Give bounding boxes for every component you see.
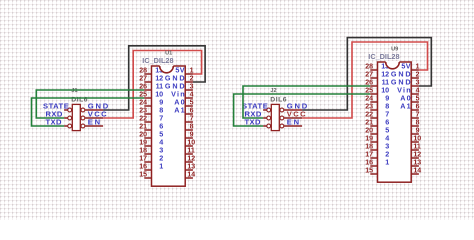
- J2 pin RXD (left): [245, 110, 271, 120]
- U9 pin 4 (right, row 4) internal label Vin: [397, 85, 419, 94]
- svg-text:13: 13: [187, 163, 195, 170]
- svg-text:28: 28: [139, 67, 147, 74]
- svg-text:10: 10: [187, 139, 195, 146]
- svg-text:21: 21: [365, 119, 373, 126]
- svg-text:IC_DIL28: IC_DIL28: [368, 52, 399, 61]
- connector J1 body: [72, 104, 80, 130]
- U9 pin 13 (right, row 13): [411, 159, 421, 166]
- U9 pin 12 (right, row 12): [411, 151, 421, 158]
- wire RXD net (green): J1.RXD to U1 pin 26: [36, 90, 144, 118]
- wire VCC net (red): J1.VCC to U1 pin 1 (5V): [103, 51, 202, 119]
- svg-text:IC_DIL28: IC_DIL28: [142, 56, 173, 65]
- wire GND net (black): J1.GND to U1 pin 2: [103, 46, 205, 110]
- U1 pin 26 (left, row 3) internal label 11: [139, 81, 163, 90]
- J1 pin EN (right): [81, 118, 103, 128]
- J2 pin GND (right): [280, 102, 309, 112]
- U1 pin 20 (left, row 9) internal label 5: [139, 129, 163, 138]
- svg-text:16: 16: [365, 159, 373, 166]
- svg-text:19: 19: [365, 135, 373, 142]
- svg-text:17: 17: [365, 151, 373, 158]
- svg-text:6: 6: [190, 107, 194, 114]
- wire GND net (black): J2.GND to U9 pin 3: [302, 38, 431, 110]
- svg-text:1: 1: [190, 67, 194, 74]
- U1 pin 21 (left, row 8) internal label 6: [139, 121, 163, 130]
- svg-text:5: 5: [416, 95, 420, 102]
- svg-text:11: 11: [187, 147, 195, 154]
- J1 pin GND (right): [81, 102, 110, 112]
- svg-text:22: 22: [139, 115, 147, 122]
- svg-text:23: 23: [365, 103, 373, 110]
- svg-text:1: 1: [159, 161, 163, 170]
- U1 pin 4 (right, row 4) internal label Vin: [171, 89, 193, 98]
- U9 pin 27 (left, row 2) internal label 12: [365, 69, 389, 78]
- U1 pin 18 (left, row 11) internal label 3: [139, 145, 163, 154]
- U1 pin 23 (left, row 6) internal label 8: [139, 105, 163, 114]
- svg-text:22: 22: [365, 111, 373, 118]
- U9 pin 23 (left, row 6) internal label 8: [365, 101, 389, 110]
- svg-text:27: 27: [365, 71, 373, 78]
- U9 pin 6 (right, row 6) internal label A1: [400, 101, 419, 110]
- U9 pin 19 (left, row 10) internal label 4: [365, 133, 389, 142]
- U1 pin 7 (right, row 7): [185, 115, 193, 122]
- svg-text:25: 25: [365, 87, 373, 94]
- J1 pin TXD (left): [46, 118, 72, 128]
- svg-text:9: 9: [190, 131, 194, 138]
- U1 pin 14 (right, row 14): [185, 171, 195, 178]
- svg-text:8: 8: [190, 123, 194, 130]
- svg-text:2: 2: [416, 71, 420, 78]
- svg-text:15: 15: [139, 171, 147, 178]
- U9 pin 1 (right, row 1) internal label 5V: [401, 61, 419, 70]
- U9 pin 15 (left, row 14): [365, 167, 377, 174]
- U9 pin 3 (right, row 3) internal label GND: [391, 77, 420, 86]
- U9 pin 21 (left, row 8) internal label 6: [365, 117, 389, 126]
- svg-text:21: 21: [139, 123, 147, 130]
- U1 pin 10 (right, row 10): [185, 139, 195, 146]
- svg-text:8: 8: [416, 119, 420, 126]
- U1 pin 12 (right, row 12): [185, 155, 195, 162]
- U1 pin 6 (right, row 6) internal label A1: [174, 105, 193, 114]
- IC U9 body: [378, 62, 412, 182]
- svg-text:DIL6: DIL6: [270, 96, 287, 103]
- svg-text:25: 25: [139, 91, 147, 98]
- J2 pin TXD (left): [245, 118, 271, 128]
- svg-text:7: 7: [190, 115, 194, 122]
- svg-text:14: 14: [413, 167, 421, 174]
- svg-text:14: 14: [187, 171, 195, 178]
- U9 pin 8 (right, row 8): [411, 119, 419, 126]
- svg-text:A1: A1: [400, 101, 412, 110]
- svg-text:J1: J1: [71, 88, 77, 94]
- U9 pin 5 (right, row 5) internal label A0: [400, 93, 419, 102]
- U1 pin 13 (right, row 13): [185, 163, 195, 170]
- svg-text:1: 1: [416, 63, 420, 70]
- svg-text:1: 1: [385, 157, 389, 166]
- svg-text:27: 27: [139, 75, 147, 82]
- svg-text:7: 7: [416, 111, 420, 118]
- connector J2 body: [271, 104, 279, 130]
- U1 pin 25 (left, row 4) internal label 10: [139, 89, 163, 98]
- svg-text:6: 6: [416, 103, 420, 110]
- svg-text:4: 4: [416, 87, 420, 94]
- U1 pin 9 (right, row 9): [185, 131, 193, 138]
- svg-text:24: 24: [139, 99, 147, 106]
- J1 pin VCC (right): [81, 110, 108, 120]
- svg-text:3: 3: [190, 83, 194, 90]
- wire TXD net (green): J2.TXD to U9 pin 25: [234, 94, 371, 126]
- svg-text:11: 11: [413, 143, 421, 150]
- U1 pin 1 (right, row 1) internal label 5V: [175, 65, 193, 74]
- U1 pin 3 (right, row 3) internal label GND: [165, 81, 194, 90]
- wire TXD net (green): J1.TXD to U1 pin 25: [32, 98, 145, 126]
- U1 pin 27 (left, row 2) internal label 12: [139, 73, 163, 82]
- svg-text:12: 12: [413, 151, 421, 158]
- svg-text:3: 3: [416, 79, 420, 86]
- U1 pin 28 (left, row 1) internal label 13: [139, 65, 163, 74]
- U9 pin 9 (right, row 9): [411, 127, 419, 134]
- svg-text:10: 10: [413, 135, 421, 142]
- U1 pin 16 (left, row 13) internal label 1: [139, 161, 163, 170]
- wire VCC net (red): J2.VCC to U9 pin 1 (5V): [302, 42, 427, 118]
- U1 pin 8 (right, row 8): [185, 123, 193, 130]
- svg-text:16: 16: [139, 163, 147, 170]
- svg-text:15: 15: [365, 167, 373, 174]
- IC U9 notch (DIL orientation mark): [386, 61, 400, 69]
- svg-text:24: 24: [365, 95, 373, 102]
- wire RXD net (green): J2.RXD to U9 pin 26: [243, 86, 370, 118]
- U1 pin 17 (left, row 12) internal label 2: [139, 153, 163, 162]
- svg-text:EN: EN: [287, 118, 301, 127]
- svg-text:19: 19: [139, 139, 147, 146]
- U9 pin 7 (right, row 7): [411, 111, 419, 118]
- U9 pin 25 (left, row 4) internal label 10: [365, 85, 389, 94]
- svg-text:EN: EN: [88, 118, 102, 127]
- IC U1 body: [152, 66, 186, 186]
- U1 pin 5 (right, row 5) internal label A0: [174, 97, 193, 106]
- svg-text:23: 23: [139, 107, 147, 114]
- IC U1 notch (DIL orientation mark): [160, 65, 174, 73]
- svg-text:28: 28: [365, 63, 373, 70]
- svg-text:9: 9: [416, 127, 420, 134]
- U1 pin 2 (right, row 2) internal label GND: [165, 73, 194, 82]
- U1 pin 11 (right, row 11): [185, 147, 195, 154]
- svg-text:5: 5: [190, 99, 194, 106]
- J2 pin VCC (right): [280, 110, 307, 120]
- svg-text:13: 13: [413, 159, 421, 166]
- J1 pin RXD (left): [46, 110, 72, 120]
- U9 pin 11 (right, row 11): [411, 143, 421, 150]
- svg-text:18: 18: [139, 147, 147, 154]
- U9 pin 26 (left, row 3) internal label 11: [365, 77, 389, 86]
- U9 pin 14 (right, row 14): [411, 167, 421, 174]
- U9 pin 10 (right, row 10): [411, 135, 421, 142]
- J2 pin STATE (left): [242, 102, 271, 112]
- U9 pin 17 (left, row 12) internal label 2: [365, 149, 389, 158]
- svg-text:26: 26: [365, 79, 373, 86]
- U9 pin 16 (left, row 13) internal label 1: [365, 157, 389, 166]
- U1 pin 22 (left, row 7) internal label 7: [139, 113, 163, 122]
- U1 pin 15 (left, row 14): [139, 171, 151, 178]
- U9 pin 28 (left, row 1) internal label 13: [365, 61, 389, 70]
- svg-text:A1: A1: [174, 105, 186, 114]
- U9 pin 20 (left, row 9) internal label 5: [365, 125, 389, 134]
- svg-text:12: 12: [187, 155, 195, 162]
- J2 pin EN (right): [280, 118, 302, 128]
- U1 pin 19 (left, row 10) internal label 4: [139, 137, 163, 146]
- svg-text:20: 20: [139, 131, 147, 138]
- svg-text:18: 18: [365, 143, 373, 150]
- svg-text:20: 20: [365, 127, 373, 134]
- U9 pin 24 (left, row 5) internal label 9: [365, 93, 389, 102]
- svg-text:4: 4: [190, 91, 194, 98]
- U9 pin 22 (left, row 7) internal label 7: [365, 109, 389, 118]
- svg-text:26: 26: [139, 83, 147, 90]
- J1 pin STATE (left): [43, 102, 72, 112]
- U9 pin 2 (right, row 2) internal label GND: [391, 69, 420, 78]
- svg-text:17: 17: [139, 155, 147, 162]
- U1 pin 24 (left, row 5) internal label 9: [139, 97, 163, 106]
- svg-text:2: 2: [190, 75, 194, 82]
- U9 pin 18 (left, row 11) internal label 3: [365, 141, 389, 150]
